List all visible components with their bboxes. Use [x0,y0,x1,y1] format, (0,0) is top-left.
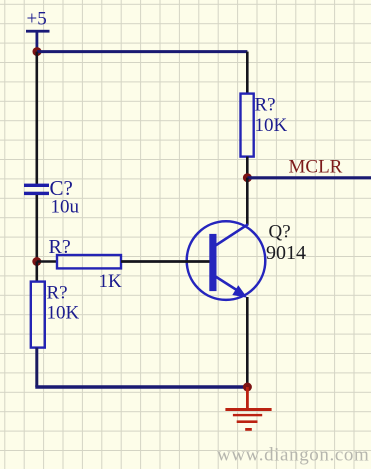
svg-text:10K: 10K [255,115,288,136]
svg-text:10u: 10u [51,197,80,218]
wire R pulldown down to bottom rail [35,348,38,387]
wire capacitor to node B [35,195,38,262]
wire top-right vertical to R pullup [246,52,249,94]
wire top rail horizontal [37,50,247,53]
node B (divider junction) [32,257,41,266]
wire MCLR horizontal to right edge [247,176,371,179]
wire MCLR node down to collector [246,178,249,225]
wire node B to base resistor [37,260,58,263]
wire emitter down [246,297,249,387]
resistor R? 10K (pull-up) [241,94,254,157]
wire R pullup to MCLR node [246,157,249,178]
svg-text:R?: R? [255,95,276,116]
wire left rail upper vertical [35,52,38,184]
svg-text:10K: 10K [47,303,80,324]
ground [225,387,271,431]
resistor R? 10K (pull-down) [31,282,45,348]
svg-text:R?: R? [47,283,68,304]
transistor Q1 9014 (NPN) [187,221,266,300]
svg-text:R?: R? [49,236,71,258]
capacitor C? 10u [24,184,49,195]
node C (ground junction) [243,383,252,392]
node MCLR junction [243,173,252,182]
svg-text:MCLR: MCLR [289,157,343,178]
svg-text:www.diangon.com: www.diangon.com [217,445,369,466]
svg-text:Q?: Q? [269,222,291,243]
wire base resistor to transistor base [121,260,210,263]
wire bottom rail horizontal [35,385,247,388]
svg-text:9014: 9014 [266,242,306,264]
power +5 bar symbol [26,30,50,51]
node A (+5 rail junction) [33,47,42,56]
svg-text:+5: +5 [27,9,47,30]
resistor R? 1K (base) [57,255,121,268]
wire node B down to R pulldown [35,262,38,283]
svg-text:1K: 1K [99,271,123,292]
